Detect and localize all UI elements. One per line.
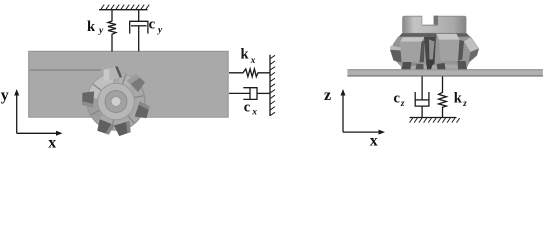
middle annulus [98, 83, 135, 120]
spring k_x [229, 69, 270, 77]
svg-text:k: k [87, 19, 96, 35]
tooth 4 (lower right) [114, 121, 132, 137]
shoulder shadow band [398, 33, 470, 37]
damper c_z [415, 92, 429, 118]
flute slot lines [91, 75, 144, 130]
svg-text:k: k [241, 47, 250, 63]
ceiling support [99, 5, 149, 10]
spring k_z [439, 76, 447, 117]
svg-text:z: z [400, 98, 405, 108]
svg-text:k: k [454, 91, 463, 107]
cutter body disc [87, 73, 145, 131]
damper c_y [130, 10, 148, 52]
right insert: top face [436, 34, 460, 40]
shank cylinder [403, 16, 466, 33]
svg-text:c: c [394, 91, 401, 107]
z axis [341, 89, 386, 135]
left insert: lower lip [402, 63, 420, 66]
center bore [111, 97, 121, 107]
svg-text:y: y [1, 87, 9, 104]
svg-text:y: y [157, 25, 163, 35]
workpiece block [29, 51, 229, 117]
svg-text:z: z [324, 87, 331, 104]
hub [105, 91, 127, 113]
svg-text:x: x [370, 133, 378, 150]
svg-text:z: z [462, 98, 467, 108]
bottom rim [401, 65, 467, 69]
svg-text:y: y [98, 26, 104, 36]
wrench notch [422, 11, 438, 26]
tooth 3 (right) [134, 101, 152, 121]
tooth 5 (lower left) [95, 118, 115, 136]
machined surface line [29, 69, 101, 71]
bottom tooth b [416, 64, 424, 69]
svg-text:x: x [251, 108, 257, 118]
right insert: front face [439, 40, 460, 61]
svg-text:c: c [149, 17, 156, 33]
left insert dark side [420, 40, 425, 62]
left rod to damper [421, 76, 423, 100]
right insert: dark side [458, 40, 464, 61]
left insert: front face [400, 42, 422, 63]
bottom tooth d [458, 61, 468, 69]
far-left tooth [390, 46, 401, 51]
svg-text:x: x [48, 134, 56, 151]
bottom tooth a [402, 62, 412, 69]
tooth 2 (upper right) [127, 72, 147, 92]
y axis [14, 89, 62, 136]
svg-text:x: x [250, 56, 256, 66]
left insert: top face [400, 37, 425, 42]
milling cutter (axial view) [81, 66, 152, 137]
tooth 1 (top, light) [102, 66, 122, 81]
spring k_y [108, 10, 116, 52]
ground support [410, 118, 460, 123]
body highlight wedge [88, 73, 117, 102]
svg-text:c: c [244, 100, 251, 116]
damper c_x [229, 88, 270, 100]
right wall support [270, 55, 275, 116]
tooth 6 (left) [81, 90, 96, 108]
plate [347, 69, 543, 76]
far-right face [464, 38, 479, 53]
3D milling tool [390, 11, 479, 70]
center flute groove [424, 37, 436, 67]
bottom tooth c [437, 63, 446, 69]
head body [391, 37, 479, 69]
